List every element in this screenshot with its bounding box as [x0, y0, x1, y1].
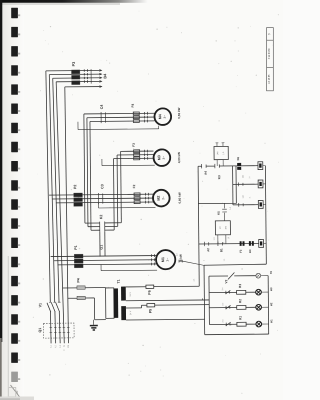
svg-text:14H: 14H: [217, 151, 219, 155]
svg-text:5: 5: [204, 260, 206, 261]
svg-text:L2: L2: [55, 345, 57, 347]
svg-text:K2: K2: [99, 215, 103, 220]
svg-text:304: 304: [222, 288, 224, 291]
svg-text:242: 242: [242, 175, 244, 178]
svg-text:H3: H3: [269, 287, 273, 291]
svg-text:302: 302: [222, 303, 224, 306]
svg-text:3~: 3~: [162, 156, 166, 160]
svg-text:C4: C4: [100, 105, 104, 110]
svg-text:4,5: 4,5: [176, 253, 178, 256]
svg-text:P5: P5: [149, 309, 153, 313]
svg-text:15: 15: [228, 237, 230, 239]
svg-text:P3: P3: [72, 62, 76, 67]
svg-text:V2: V2: [224, 279, 228, 283]
svg-text:3~: 3~: [163, 115, 167, 119]
svg-text:R2: R2: [238, 299, 242, 303]
svg-text:24 V: 24 V: [130, 310, 132, 315]
svg-text:1H3: 1H3: [225, 226, 227, 229]
svg-text:3~: 3~: [166, 258, 170, 262]
svg-text:0,60 kW: 0,60 kW: [178, 192, 182, 203]
svg-text:C3 28 85: C3 28 85: [269, 74, 271, 84]
svg-text:24: 24: [249, 177, 251, 179]
svg-text:0,55 kW: 0,55 kW: [177, 107, 181, 118]
svg-text:B1: B1: [219, 248, 223, 252]
svg-text:2H2: 2H2: [222, 319, 224, 322]
svg-text:F6: F6: [236, 157, 240, 161]
svg-text:P6: P6: [148, 290, 152, 294]
svg-text:L1: L1: [50, 345, 52, 347]
svg-text:110: 110: [243, 195, 245, 198]
svg-text:G1: G1: [100, 245, 104, 250]
svg-text:P2: P2: [73, 185, 77, 189]
svg-text:R3: R3: [238, 284, 242, 288]
svg-text:E3: E3: [248, 249, 252, 253]
svg-text:1-4: 1-4: [224, 259, 226, 262]
svg-text:A4: A4: [204, 171, 208, 175]
svg-text:H2: H2: [269, 302, 273, 306]
svg-text:A2: A2: [206, 248, 210, 252]
svg-text:P4: P4: [76, 278, 80, 282]
svg-text:C3: C3: [100, 184, 104, 189]
svg-text:K5: K5: [217, 211, 221, 215]
svg-text:2,5: 2,5: [193, 279, 195, 282]
svg-text:11: 11: [249, 197, 251, 199]
svg-text:F2: F2: [132, 184, 136, 188]
svg-text:M2: M2: [157, 196, 161, 201]
svg-text:3~: 3~: [161, 196, 165, 200]
svg-text:M1: M1: [161, 257, 165, 262]
svg-text:F2: F2: [239, 249, 243, 253]
svg-text:1-4: 1-4: [230, 207, 232, 210]
svg-text:M3: M3: [157, 155, 161, 160]
svg-text:T1: T1: [117, 279, 121, 283]
svg-text:1-4: 1-4: [214, 238, 216, 241]
svg-text:K3: K3: [217, 175, 221, 179]
svg-text:Z 92 44 80: Z 92 44 80: [269, 48, 271, 60]
svg-text:R1: R1: [238, 316, 242, 320]
svg-text:01: 01: [269, 271, 273, 275]
svg-text:H1: H1: [269, 319, 273, 323]
svg-text:F3: F3: [132, 143, 136, 147]
svg-text:F4: F4: [131, 104, 135, 108]
svg-text:4,00 kW: 4,00 kW: [177, 152, 181, 163]
svg-text:L3: L3: [60, 345, 62, 347]
svg-text:P1: P1: [74, 245, 78, 249]
svg-text:24 V: 24 V: [130, 292, 132, 297]
svg-text:V1: V1: [38, 303, 42, 307]
svg-text:Q1: Q1: [38, 328, 42, 333]
